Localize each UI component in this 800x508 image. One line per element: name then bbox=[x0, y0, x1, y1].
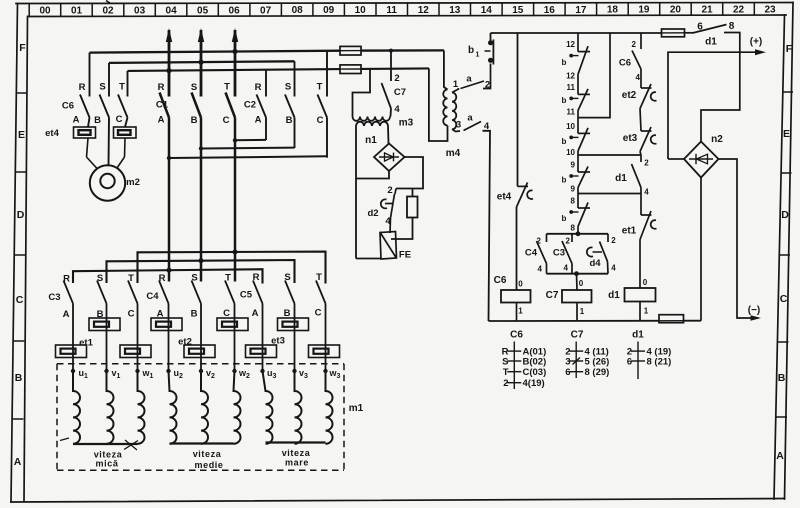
winding v1 bbox=[107, 371, 114, 444]
svg-text:m1: m1 bbox=[349, 403, 364, 414]
svg-text:1: 1 bbox=[518, 307, 523, 316]
svg-text:8 (21): 8 (21) bbox=[647, 357, 672, 368]
star rail speed 2 bbox=[170, 442, 234, 444]
contactor C2 pole S bbox=[285, 61, 295, 148]
wire et1 to coil d1 bbox=[639, 240, 641, 289]
thermal element et3 phase T bbox=[309, 345, 340, 358]
svg-text:d1: d1 bbox=[632, 330, 644, 341]
contactor C5 pole T bbox=[316, 281, 326, 372]
wire cascade bottom bbox=[577, 227, 579, 234]
svg-text:03: 03 bbox=[134, 6, 146, 17]
svg-text:n2: n2 bbox=[711, 134, 723, 145]
svg-text:8 (29): 8 (29) bbox=[585, 367, 610, 378]
svg-text:08: 08 bbox=[292, 5, 304, 16]
contactor C3 pole S bbox=[97, 281, 107, 372]
winding u3 bbox=[263, 371, 273, 444]
svg-text:C(03): C(03) bbox=[523, 367, 547, 378]
svg-text:a: a bbox=[467, 113, 473, 124]
svg-text:4: 4 bbox=[644, 188, 649, 197]
svg-text:12: 12 bbox=[566, 40, 575, 49]
junction C7 lead on bottom rail bbox=[574, 271, 579, 276]
junction S supply to middle bus bbox=[198, 60, 203, 65]
pushbutton d4 NC bbox=[587, 234, 608, 274]
svg-text:3: 3 bbox=[565, 357, 570, 368]
wire m3 secondary right to n1 bbox=[387, 126, 390, 144]
svg-text:5 (26): 5 (26) bbox=[585, 357, 610, 368]
svg-text:6: 6 bbox=[697, 22, 703, 33]
svg-text:2: 2 bbox=[644, 159, 649, 168]
svg-text:2: 2 bbox=[537, 237, 542, 246]
coil d1 bbox=[625, 288, 656, 302]
svg-text:02: 02 bbox=[102, 6, 114, 17]
svg-text:b: b bbox=[562, 214, 567, 223]
(+) output arrow bbox=[668, 52, 757, 159]
svg-text:FE: FE bbox=[399, 250, 411, 261]
contact d2 bbox=[381, 189, 396, 219]
thermal element et2 phase S bbox=[184, 345, 215, 358]
auxiliary contact d1 (2-4) bbox=[632, 155, 642, 194]
bypass wire from bus to cascade bbox=[578, 33, 610, 118]
cam switch b contact 11 bbox=[573, 74, 590, 110]
motor m2 bbox=[90, 165, 125, 200]
svg-text:15: 15 bbox=[512, 5, 524, 16]
svg-text:b: b bbox=[562, 176, 567, 185]
winding u2 bbox=[169, 371, 177, 444]
svg-text:C6: C6 bbox=[510, 330, 523, 341]
svg-text:C7: C7 bbox=[394, 87, 406, 98]
svg-text:09: 09 bbox=[323, 5, 335, 16]
svg-text:et1: et1 bbox=[622, 226, 637, 237]
svg-text:8: 8 bbox=[571, 197, 576, 206]
svg-text:0: 0 bbox=[579, 279, 584, 288]
svg-text:11: 11 bbox=[567, 108, 576, 117]
svg-text:C4: C4 bbox=[525, 248, 538, 259]
supply line S with arrow bbox=[200, 30, 203, 97]
svg-text:S: S bbox=[191, 82, 197, 93]
contactor C4 pole R bbox=[159, 281, 169, 372]
svg-text:b: b bbox=[468, 45, 474, 56]
wire n2 right to (-) bbox=[719, 159, 755, 318]
svg-text:9: 9 bbox=[571, 161, 576, 170]
svg-text:4: 4 bbox=[394, 104, 400, 115]
transformer m4 secondary winding bbox=[452, 93, 456, 130]
svg-text:mare: mare bbox=[285, 458, 309, 468]
contactor C5 pole R bbox=[253, 281, 263, 372]
parallel block bottom rail bbox=[547, 273, 609, 275]
svg-text:4(19): 4(19) bbox=[523, 378, 545, 389]
contactor C4 pole T bbox=[225, 281, 235, 372]
svg-text:d1: d1 bbox=[705, 37, 717, 48]
speed bus T bbox=[138, 252, 326, 284]
cam switch b contact 9 bbox=[573, 151, 590, 188]
svg-text:4: 4 bbox=[564, 264, 569, 273]
winding terminal labels bbox=[79, 368, 341, 380]
svg-text:2: 2 bbox=[611, 236, 616, 245]
junction C2-A on C1-C bbox=[233, 138, 237, 142]
contactor C3 pole T bbox=[128, 281, 138, 372]
svg-text:05: 05 bbox=[197, 5, 209, 16]
thermal element et1 phase S bbox=[89, 318, 120, 331]
svg-text:m3: m3 bbox=[399, 118, 414, 129]
0V bus bottom bbox=[489, 320, 702, 322]
auxiliary contact C4 (2-4) bbox=[537, 234, 547, 274]
winding w3 bbox=[326, 371, 333, 444]
thermal element et4 phase C bbox=[114, 127, 137, 168]
resistor bottom wire bbox=[391, 218, 413, 240]
svg-text:0: 0 bbox=[518, 280, 523, 289]
svg-text:B(02): B(02) bbox=[523, 357, 547, 368]
wire C2-A to C1-C bbox=[235, 139, 266, 141]
svg-text:23: 23 bbox=[764, 5, 776, 16]
parallel block top rail bbox=[547, 233, 609, 235]
svg-text:T: T bbox=[503, 367, 509, 378]
contactor C1 pole R bbox=[160, 93, 170, 282]
svg-text:C7: C7 bbox=[546, 290, 559, 301]
svg-text:8: 8 bbox=[729, 21, 735, 32]
svg-text:et4: et4 bbox=[45, 128, 59, 139]
svg-text:A: A bbox=[252, 308, 259, 319]
svg-text:C5: C5 bbox=[240, 290, 253, 301]
svg-text:8: 8 bbox=[571, 224, 576, 233]
wire C2-B to C1-B bbox=[201, 147, 295, 150]
left row letters F E D C B A bbox=[14, 42, 27, 468]
terminal 2 hook to b1 bbox=[483, 64, 491, 89]
svg-text:T: T bbox=[128, 273, 134, 284]
svg-text:T: T bbox=[225, 273, 231, 284]
bus bottom (R net) bbox=[128, 68, 429, 71]
svg-text:A: A bbox=[63, 309, 70, 320]
svg-text:C6: C6 bbox=[619, 58, 631, 69]
contactor C6 pole S bbox=[100, 63, 110, 166]
svg-text:C: C bbox=[317, 115, 324, 126]
svg-text:9: 9 bbox=[571, 185, 576, 194]
contactor C5 pole S bbox=[285, 281, 295, 372]
svg-text:R: R bbox=[158, 82, 165, 93]
rectifier n2 bbox=[684, 142, 719, 178]
svg-text:R: R bbox=[79, 82, 86, 93]
thermal contact et4 chain lead bbox=[517, 33, 519, 186]
svg-text:4: 4 bbox=[611, 264, 616, 273]
svg-text:04: 04 bbox=[166, 5, 178, 16]
wire m4 secondary bottom to terminal 3 bbox=[452, 129, 460, 131]
svg-text:10: 10 bbox=[355, 5, 367, 16]
junction T supply to top bus bbox=[232, 49, 237, 54]
winding terminal dots u1 v1 w1 u2 v2 w2 u3 v3 w3 bbox=[71, 369, 328, 373]
svg-text:2: 2 bbox=[503, 378, 508, 389]
svg-text:n1: n1 bbox=[365, 135, 377, 146]
wire m3 secondary left down bbox=[355, 126, 357, 259]
transformer m4 primary lead from top bus bbox=[444, 50, 448, 89]
winding w2 bbox=[234, 371, 241, 444]
frame left outer border bbox=[11, 4, 18, 503]
svg-text:F: F bbox=[786, 43, 793, 55]
control bus (+) top bbox=[491, 32, 662, 34]
svg-text:mică: mică bbox=[96, 459, 119, 469]
svg-text:4: 4 bbox=[538, 265, 543, 274]
svg-text:C1: C1 bbox=[156, 100, 169, 111]
frame left inner border bbox=[24, 17, 28, 502]
fuse F1 on top bus bbox=[340, 46, 361, 55]
svg-text:d2: d2 bbox=[367, 208, 378, 219]
svg-text:1: 1 bbox=[453, 79, 459, 90]
contactor C2 pole R bbox=[257, 70, 267, 140]
thermal element et2 phase R bbox=[151, 318, 182, 331]
right row letters F E D C B A bbox=[776, 43, 793, 462]
selector a contact 3-4 bbox=[464, 122, 482, 131]
svg-text:et3: et3 bbox=[623, 133, 638, 144]
contactor C2 pole T bbox=[318, 51, 328, 158]
svg-text:S: S bbox=[97, 273, 103, 284]
star rail speed 1 bbox=[73, 443, 138, 445]
svg-text:D: D bbox=[781, 209, 789, 221]
svg-text:20: 20 bbox=[670, 5, 682, 16]
contactor C6 pole R bbox=[80, 53, 90, 127]
svg-text:21: 21 bbox=[701, 5, 713, 16]
contact C7 (2-4) bbox=[382, 51, 392, 117]
svg-text:E: E bbox=[783, 128, 790, 140]
svg-text:medie: medie bbox=[194, 460, 223, 470]
svg-text:C: C bbox=[780, 293, 788, 305]
svg-text:D: D bbox=[17, 209, 25, 221]
wire et2 to et3 bbox=[640, 109, 641, 132]
svg-text:(−): (−) bbox=[748, 305, 761, 316]
left row ticks bbox=[12, 93, 27, 419]
svg-text:6: 6 bbox=[627, 357, 632, 368]
winding v3 bbox=[295, 371, 302, 444]
svg-text:et2: et2 bbox=[178, 337, 192, 348]
svg-text:10: 10 bbox=[566, 148, 575, 157]
svg-text:S: S bbox=[191, 273, 197, 284]
bus middle (S net) bbox=[109, 61, 295, 63]
svg-text:(+): (+) bbox=[750, 37, 763, 48]
svg-text:d4: d4 bbox=[589, 258, 601, 269]
svg-text:m2: m2 bbox=[126, 177, 140, 188]
thermal NC contact et4 bbox=[517, 183, 534, 208]
frame right inner border bbox=[774, 15, 785, 499]
svg-text:E: E bbox=[18, 129, 25, 141]
svg-text:m4: m4 bbox=[446, 148, 461, 159]
svg-text:R: R bbox=[253, 272, 260, 283]
junction R supply to bottom bus bbox=[166, 68, 171, 73]
svg-text:S: S bbox=[285, 82, 291, 93]
wire n2 bottom to 0V bus bbox=[700, 178, 702, 321]
svg-text:C: C bbox=[116, 114, 123, 125]
svg-text:B: B bbox=[191, 115, 198, 126]
bus top (T net) bbox=[90, 50, 444, 52]
svg-text:4: 4 bbox=[636, 73, 641, 82]
svg-text:b: b bbox=[562, 96, 567, 105]
star point cross mark bbox=[124, 440, 138, 450]
svg-text:12: 12 bbox=[566, 71, 575, 80]
svg-text:19: 19 bbox=[638, 5, 650, 16]
fuse F4 on 0V bus bbox=[659, 315, 684, 323]
transformer m3 primary winding bbox=[353, 117, 391, 121]
svg-text:S: S bbox=[502, 357, 508, 368]
svg-text:10: 10 bbox=[566, 122, 575, 131]
svg-text:2: 2 bbox=[632, 40, 637, 49]
svg-text:A: A bbox=[776, 450, 784, 462]
svg-text:A: A bbox=[158, 115, 165, 126]
grid column ticks bbox=[29, 3, 754, 17]
svg-text:S: S bbox=[284, 272, 290, 283]
resistor bbox=[407, 197, 418, 218]
wire fuse to d1 switch bbox=[685, 32, 694, 34]
svg-text:T: T bbox=[224, 82, 230, 93]
thermal element et1 phase R bbox=[56, 345, 87, 358]
svg-text:d1: d1 bbox=[615, 173, 627, 184]
svg-text:S: S bbox=[99, 82, 105, 93]
labels A B C speed contacts bbox=[63, 308, 322, 321]
junction C1-A on bus R bbox=[167, 268, 172, 273]
svg-text:viteza: viteza bbox=[193, 449, 222, 459]
svg-text:6: 6 bbox=[565, 367, 570, 378]
svg-text:14: 14 bbox=[481, 5, 493, 16]
cross link 9/8 to d1 contact bbox=[578, 193, 641, 195]
svg-text:A: A bbox=[14, 456, 22, 468]
svg-text:C2: C2 bbox=[244, 100, 256, 111]
winding u1 bbox=[73, 371, 80, 444]
junction C2-B on C1-B bbox=[199, 146, 203, 150]
svg-text:0: 0 bbox=[643, 278, 648, 287]
contactor C1 pole S bbox=[192, 93, 202, 282]
svg-text:et1: et1 bbox=[79, 338, 93, 349]
frame number strip bottom line bbox=[28, 15, 786, 17]
motor m1 dashed enclosure bbox=[57, 364, 344, 471]
transformer m3 secondary winding bbox=[356, 122, 388, 126]
svg-text:R: R bbox=[159, 273, 166, 284]
junction C1-C on bus T bbox=[233, 250, 238, 255]
svg-text:C7: C7 bbox=[571, 330, 584, 341]
terminal 4 hook and long drop to 0V bus bbox=[483, 131, 491, 321]
svg-text:2: 2 bbox=[566, 237, 571, 246]
transformer m3 primary feed route bbox=[353, 69, 371, 117]
switch d1 (6-8) bbox=[693, 25, 727, 34]
frame right outer border bbox=[785, 3, 794, 500]
speed bus R bbox=[73, 269, 263, 283]
svg-text:T: T bbox=[119, 82, 125, 93]
svg-text:T: T bbox=[317, 82, 323, 93]
svg-text:b: b bbox=[562, 58, 567, 67]
right row ticks bbox=[776, 92, 793, 417]
svg-text:16: 16 bbox=[544, 5, 556, 16]
pushbutton b1 bbox=[485, 33, 494, 65]
supply line R with arrow bbox=[168, 30, 171, 97]
wire n1 bottom to left rail bbox=[356, 171, 389, 179]
contactor C3 pole R bbox=[64, 281, 74, 372]
svg-text:b: b bbox=[562, 137, 567, 146]
svg-text:C6: C6 bbox=[62, 101, 74, 112]
svg-text:1: 1 bbox=[644, 307, 649, 316]
svg-text:d1: d1 bbox=[608, 290, 620, 301]
svg-text:B: B bbox=[94, 115, 101, 126]
svg-text:C4: C4 bbox=[146, 291, 159, 302]
svg-text:R: R bbox=[255, 82, 262, 93]
wire d2 to fuse FE bbox=[389, 218, 392, 233]
wire et3 to link bbox=[640, 152, 641, 156]
svg-text:B: B bbox=[15, 372, 23, 384]
svg-text:12: 12 bbox=[418, 5, 430, 16]
svg-text:F: F bbox=[19, 42, 26, 54]
contactor C1 pole T bbox=[226, 93, 236, 282]
svg-text:A: A bbox=[255, 115, 262, 126]
star rail speed 3 bbox=[266, 441, 326, 443]
contactor C6 pole T bbox=[118, 71, 128, 127]
fuse F2 on bottom bus bbox=[340, 65, 361, 74]
svg-text:B: B bbox=[191, 309, 198, 320]
thermal NC contact et3 bbox=[640, 127, 657, 152]
wire m4 secondary top to terminal 1 bbox=[452, 88, 459, 93]
svg-text:R: R bbox=[63, 274, 70, 285]
winding v2 bbox=[201, 371, 208, 444]
auxiliary contact C6 (2-4) bbox=[632, 33, 641, 88]
contactor C4 pole S bbox=[192, 281, 202, 372]
coil C6 bbox=[501, 290, 531, 303]
svg-text:T: T bbox=[316, 272, 322, 283]
auxiliary contact C3 (2-4) bbox=[562, 234, 572, 274]
svg-text:et3: et3 bbox=[271, 336, 285, 347]
scan mark above cell 02 bbox=[106, 1, 110, 4]
svg-text:3: 3 bbox=[456, 120, 461, 131]
svg-text:B: B bbox=[286, 115, 293, 126]
svg-text:11: 11 bbox=[567, 83, 576, 92]
transformer m4 primary winding bbox=[443, 90, 447, 126]
svg-text:06: 06 bbox=[229, 5, 241, 16]
svg-text:1: 1 bbox=[476, 52, 480, 59]
labels R S T speed contacts bbox=[63, 272, 322, 285]
wire d1 switch to n2 bbox=[701, 33, 740, 143]
svg-text:13: 13 bbox=[449, 5, 461, 16]
svg-text:C6: C6 bbox=[494, 275, 507, 286]
thermal NC contact et1 bbox=[640, 211, 657, 240]
svg-text:et2: et2 bbox=[622, 90, 637, 101]
svg-text:C: C bbox=[128, 309, 135, 320]
junction C7 tap on top bus bbox=[389, 49, 393, 53]
thermal NC contact et2 bbox=[640, 84, 657, 109]
cam switch b contact 12 bbox=[573, 33, 590, 74]
cam switch b contact 8 bbox=[573, 188, 590, 227]
svg-text:17: 17 bbox=[575, 5, 587, 16]
thermal element et2 phase T bbox=[217, 318, 248, 331]
svg-text:C: C bbox=[16, 294, 24, 306]
grid column numbers 00-23 bbox=[39, 5, 776, 17]
resistor lead bbox=[412, 189, 414, 197]
svg-text:C: C bbox=[315, 308, 322, 319]
junction C2-C on C1-A bbox=[167, 156, 171, 160]
wire FE bottom to left rail bbox=[356, 258, 381, 260]
svg-text:07: 07 bbox=[260, 5, 272, 16]
supply line T with arrow bbox=[234, 30, 237, 97]
svg-text:2: 2 bbox=[394, 73, 399, 84]
rectifier n1 bbox=[374, 144, 405, 172]
coil C7 bbox=[576, 274, 579, 290]
transformer m4 primary bottom route to R bus bbox=[429, 68, 448, 141]
svg-text:B: B bbox=[778, 372, 786, 384]
svg-text:C3: C3 bbox=[553, 248, 565, 259]
frame outer top line bbox=[16, 3, 793, 4]
svg-text:1: 1 bbox=[580, 307, 585, 316]
wire into n2 left bbox=[668, 158, 684, 160]
wire link to et1 bbox=[640, 194, 642, 216]
frame bottom border bbox=[11, 499, 785, 503]
fuse FE bbox=[380, 232, 397, 260]
junction cascade on top rail bbox=[576, 231, 581, 236]
thermal element et3 phase R bbox=[246, 345, 277, 358]
svg-text:22: 22 bbox=[733, 5, 745, 16]
cross link 10/9 to et3 bbox=[578, 154, 641, 156]
svg-text:a: a bbox=[466, 74, 472, 85]
fuse F3 on control bus bbox=[662, 29, 685, 37]
speed bus S bbox=[107, 260, 295, 283]
